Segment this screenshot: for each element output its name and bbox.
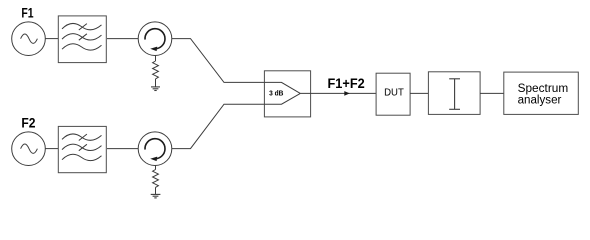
wire FL1 to circulator CR1	[107, 38, 138, 40]
svg-text:Spectrum: Spectrum	[518, 83, 569, 95]
low-pass filter FL1	[58, 16, 106, 63]
wire R1 to ground	[155, 79, 157, 87]
wire attenuator to spectrum analyser	[480, 92, 504, 94]
combiner U1 box	[264, 71, 310, 117]
ground (row 1)	[151, 87, 160, 91]
resistor R1 (termination)	[153, 61, 159, 79]
signal source G1 (F1)	[12, 22, 46, 56]
svg-text:F1: F1	[21, 6, 34, 21]
resistor R2 (termination)	[153, 170, 159, 188]
spectrum analyser box	[504, 72, 579, 114]
svg-text:F2: F2	[21, 116, 35, 131]
DUT box	[376, 73, 410, 115]
circulator CR1	[138, 22, 172, 56]
svg-text:F1+F2: F1+F2	[328, 76, 365, 91]
arrowhead on output wire	[344, 91, 350, 96]
wire DUT to attenuator	[410, 92, 429, 94]
svg-text:analyser: analyser	[518, 94, 562, 106]
circulator CR2 arrowhead	[150, 157, 157, 162]
wire FL2 to circulator CR2	[107, 148, 138, 150]
combiner U1 symbol	[264, 82, 300, 104]
wire G1 to filter FL1	[45, 38, 58, 40]
wire CR2 to combiner lower input	[172, 104, 264, 148]
wire R2 to ground	[155, 187, 157, 194]
circulator CR1 arrowhead	[150, 47, 157, 52]
attenuator AT1 box	[428, 72, 480, 115]
wire CR2 to termination R2	[155, 165, 157, 169]
wire CR1 to termination R1	[155, 55, 157, 61]
wire G2 to filter FL2	[45, 148, 58, 150]
ground (row 2)	[151, 194, 161, 198]
low-pass filter FL2	[58, 126, 106, 172]
circulator CR2	[138, 132, 172, 166]
wire CR1 to combiner upper input	[172, 39, 264, 83]
svg-text:DUT: DUT	[384, 88, 404, 99]
wire combiner output to DUT	[300, 92, 376, 94]
attenuator AT1 symbol	[449, 79, 460, 110]
signal source G2 (F2)	[12, 132, 46, 166]
svg-text:3 dB: 3 dB	[269, 88, 284, 97]
